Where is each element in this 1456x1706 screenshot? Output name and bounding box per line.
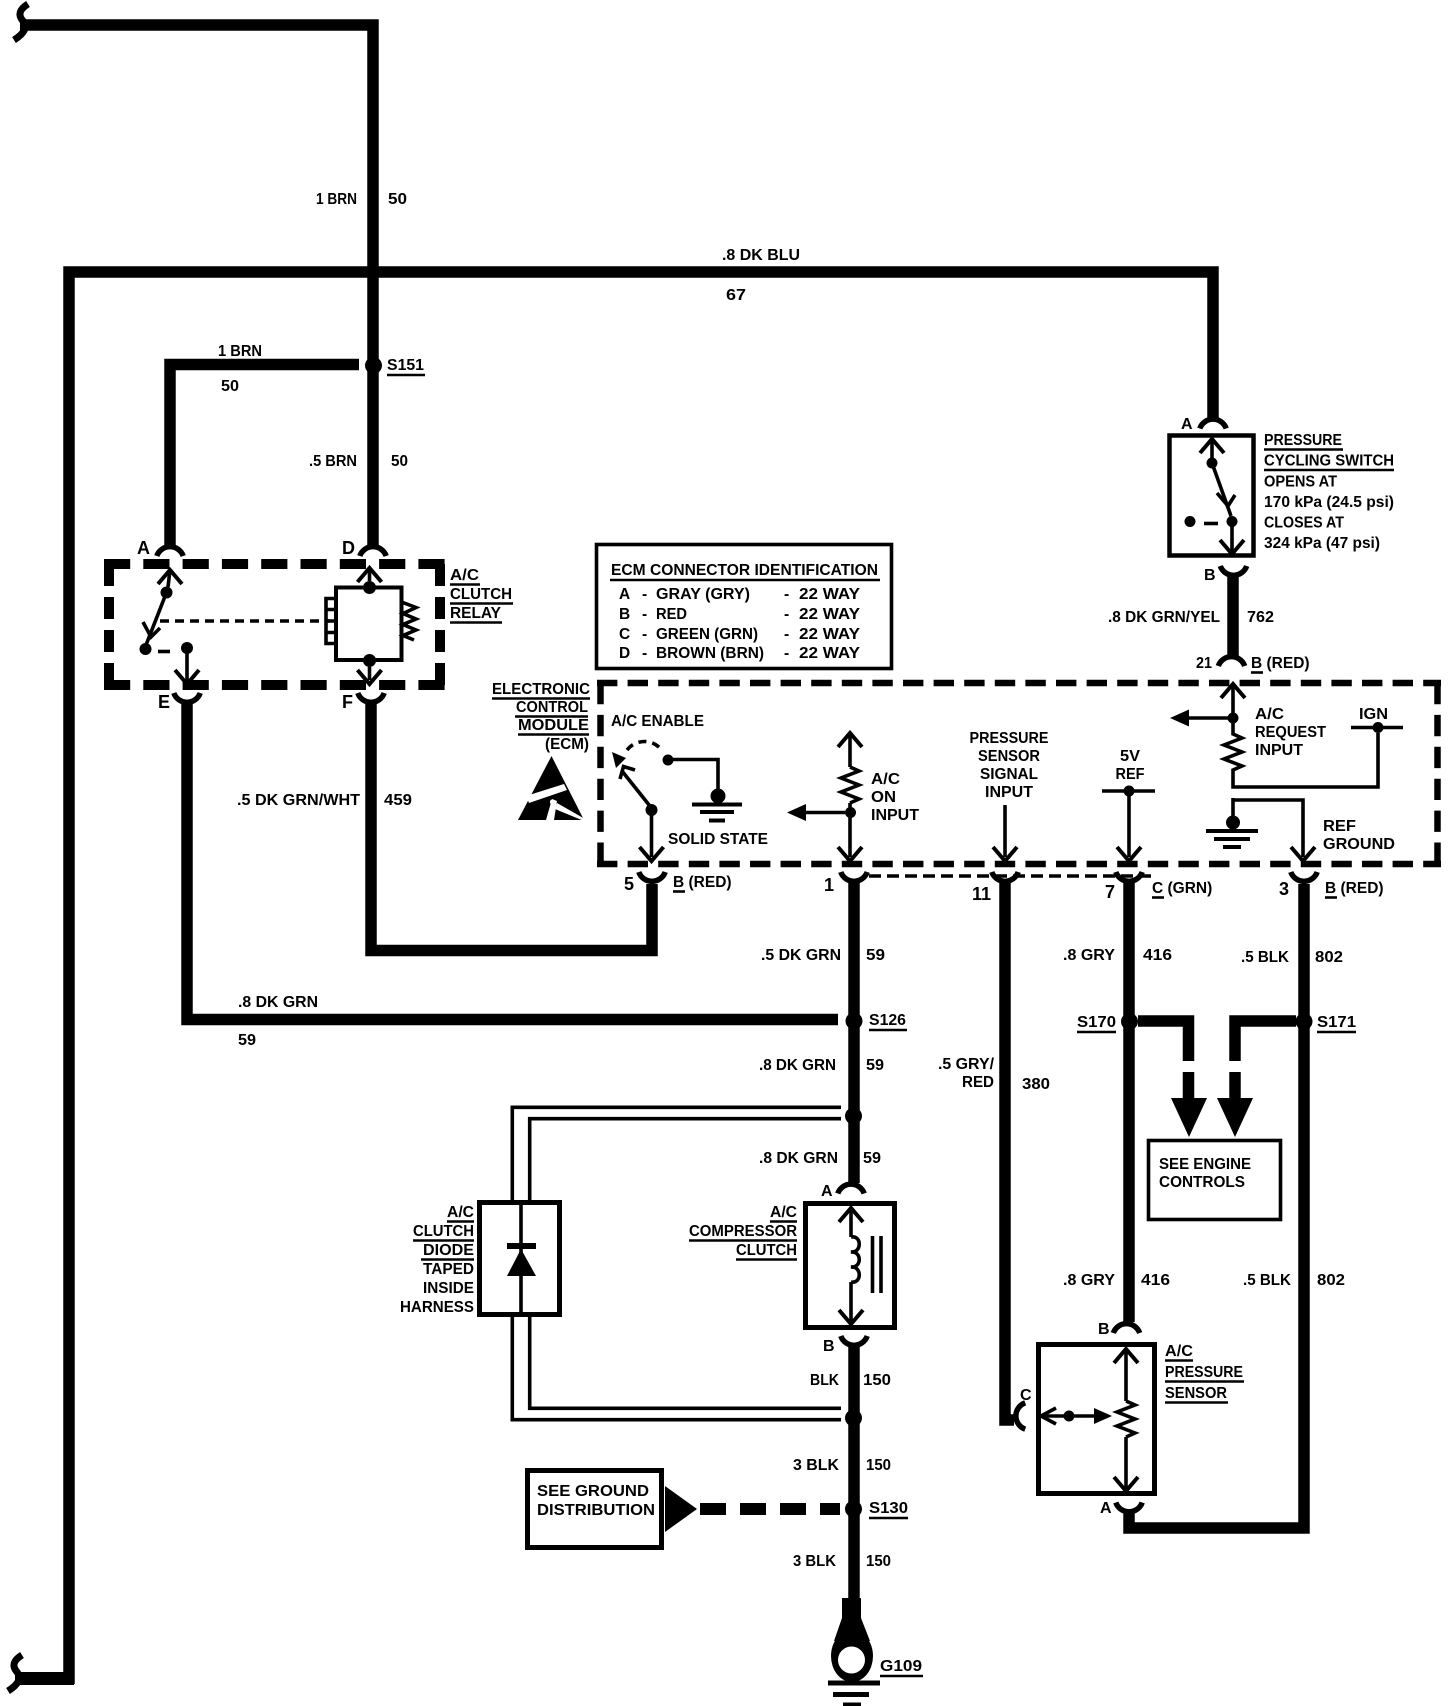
svg-text:GRAY (GRY): GRAY (GRY) [656, 586, 750, 603]
svg-text:PRESSURE: PRESSURE [1264, 432, 1342, 449]
wire .8 DK GRN/YEL 762 (switch B to ECM pin 21) [1227, 573, 1239, 656]
svg-text:SENSOR: SENSOR [1165, 1385, 1227, 1402]
svg-text:CONTROLS: CONTROLS [1159, 1174, 1245, 1191]
svg-text:ELECTRONIC: ELECTRONIC [492, 681, 590, 698]
svg-text:802: 802 [1317, 1272, 1345, 1289]
ECM internal: REF GROUND network [1206, 798, 1315, 861]
svg-text:ECM CONNECTOR IDENTIFICATION: ECM CONNECTOR IDENTIFICATION [611, 562, 878, 579]
svg-text:COMPRESSOR: COMPRESSOR [689, 1223, 797, 1240]
svg-text:A: A [137, 538, 150, 558]
ECM pin 7 id C (GRN) [1152, 880, 1212, 898]
svg-text:A: A [821, 1183, 833, 1200]
pressure cycling switch box [1170, 436, 1254, 556]
A/C clutch diode box [480, 1203, 560, 1315]
splice S151 [365, 357, 382, 374]
label S171 [1317, 1014, 1356, 1032]
svg-text:S151: S151 [387, 357, 424, 374]
svg-text:3 BLK: 3 BLK [793, 1457, 840, 1474]
ECM internal: A/C ON INPUT pull-up resistor [787, 733, 862, 861]
svg-text:11: 11 [972, 884, 991, 904]
ECM pin 3 connector [1279, 872, 1317, 899]
ground ring terminal G109 [831, 1598, 873, 1682]
svg-text:.8 GRY: .8 GRY [1063, 1272, 1116, 1289]
svg-text:.5 BLK: .5 BLK [1243, 1272, 1292, 1289]
junction with diode branch (top) [845, 1108, 862, 1125]
compressor clutch plates [873, 1236, 882, 1293]
wire BLK 150 (clutch B to G109) [848, 1343, 860, 1602]
svg-text:A/C: A/C [447, 1204, 474, 1221]
G109 ground bars [828, 1683, 880, 1705]
svg-text:C: C [1020, 1387, 1032, 1404]
ECM pin 5 id B (RED) [673, 874, 732, 892]
ECM internal: 5V REF label [1116, 748, 1145, 783]
svg-text:-: - [784, 606, 789, 623]
svg-text:S171: S171 [1317, 1014, 1356, 1031]
svg-text:F: F [342, 692, 353, 712]
svg-text:CLUTCH: CLUTCH [736, 1242, 797, 1259]
svg-text:REF: REF [1323, 818, 1356, 835]
svg-text:59: 59 [238, 1032, 256, 1049]
svg-text:59: 59 [866, 947, 885, 964]
svg-text:CLUTCH: CLUTCH [413, 1223, 474, 1240]
svg-text:21: 21 [1196, 655, 1212, 672]
svg-text:B: B [1098, 1321, 1110, 1338]
diode CR1 symbol [507, 1202, 536, 1317]
ECM pin 5 connector [624, 872, 665, 894]
svg-text:802: 802 [1315, 949, 1343, 966]
svg-text:324 kPa (47 psi): 324 kPa (47 psi) [1264, 535, 1380, 552]
svg-text:PRESSURE: PRESSURE [970, 730, 1049, 747]
svg-text:5V: 5V [1120, 748, 1141, 765]
svg-text:.5 DK GRN: .5 DK GRN [761, 947, 841, 964]
relay terminal E cup [158, 692, 200, 712]
svg-text:-: - [642, 645, 647, 662]
svg-text:SEE ENGINE: SEE ENGINE [1159, 1156, 1251, 1173]
ECM pin 3 id B (RED) [1325, 880, 1384, 898]
svg-text:.5 BLK: .5 BLK [1241, 949, 1290, 966]
dashed wire to S130 [700, 1503, 840, 1515]
ECM internal: A/C REQUEST INPUT label [1255, 706, 1326, 759]
svg-text:CYCLING SWITCH: CYCLING SWITCH [1264, 453, 1394, 470]
svg-text:150: 150 [863, 1372, 891, 1389]
pressure sensor potentiometer [1114, 1349, 1138, 1491]
ESD sensitivity symbol [518, 756, 585, 821]
ECM internal: REF GROUND label [1323, 818, 1395, 853]
svg-text:.8 DK GRN: .8 DK GRN [759, 1057, 836, 1074]
svg-text:SOLID STATE: SOLID STATE [668, 831, 768, 848]
svg-text:INPUT: INPUT [985, 784, 1034, 801]
ECM pin 11 connector [972, 872, 1018, 904]
A/C clutch relay K1 dashed box [104, 564, 445, 685]
svg-text:SENSOR: SENSOR [978, 748, 1040, 765]
compressor clutch terminal B cup [823, 1336, 867, 1355]
wire .5 GRY/RED 380 (ECM pin 11 to sensor C) [1005, 883, 1014, 1420]
svg-text:.8 DK BLU: .8 DK BLU [722, 247, 800, 264]
relay switch (terminal A to E) [140, 570, 200, 684]
ECM internal: A/C enable switch [612, 741, 674, 861]
svg-text:-: - [642, 626, 647, 643]
SEE ENGINE CONTROLS box [1149, 1141, 1281, 1220]
svg-text:.5 DK GRN/WHT: .5 DK GRN/WHT [237, 792, 361, 809]
wire 1 BRN 50 (S151 to relay terminal A) [170, 365, 359, 546]
SEE GROUND DISTRIBUTION box [528, 1471, 662, 1548]
wire .5 BLK 802 (ECM pin 3 to sensor A) [1129, 884, 1304, 1528]
svg-text:S126: S126 [869, 1012, 906, 1029]
pressure sensor terminal C cup [1016, 1387, 1032, 1429]
label A/C CLUTCH RELAY [450, 567, 513, 623]
svg-text:7: 7 [1105, 882, 1115, 902]
relay coil and resistor box [326, 568, 416, 684]
svg-text:459: 459 [384, 792, 412, 809]
svg-text:CLOSES AT: CLOSES AT [1264, 515, 1344, 532]
svg-text:59: 59 [863, 1150, 881, 1167]
svg-text:C: C [619, 626, 630, 643]
svg-text:B (RED): B (RED) [1251, 655, 1310, 672]
pressure cycling switch contacts [1185, 439, 1245, 554]
electronic control module (ECM) dashed box [597, 683, 1441, 864]
svg-text:.8 DK GRN: .8 DK GRN [759, 1150, 838, 1167]
svg-text:ON: ON [871, 789, 896, 806]
svg-text:416: 416 [1141, 1272, 1170, 1289]
compressor clutch terminal A cup [821, 1183, 864, 1200]
svg-text:3 BLK: 3 BLK [793, 1553, 837, 1570]
splice S126 [846, 1013, 863, 1030]
svg-text:DISTRIBUTION: DISTRIBUTION [537, 1502, 655, 1519]
relay terminal D cup [342, 538, 386, 558]
svg-text:CONTROL: CONTROL [516, 699, 588, 716]
relay actuation dashed link [160, 619, 330, 622]
svg-text:(ECM): (ECM) [545, 736, 589, 753]
svg-text:BROWN (BRN): BROWN (BRN) [656, 645, 764, 662]
svg-text:A: A [1181, 416, 1193, 433]
svg-text:-: - [784, 586, 789, 603]
svg-text:.5 BRN: .5 BRN [309, 453, 357, 470]
off-page arrow (ground distribution) [665, 1486, 697, 1532]
svg-text:1: 1 [824, 875, 834, 895]
pressure sensor wiper [1041, 1408, 1112, 1424]
svg-text:.8 GRY: .8 GRY [1063, 947, 1116, 964]
junction with diode branch (bottom) [845, 1410, 862, 1427]
splice S130 [845, 1501, 862, 1518]
svg-text:-: - [784, 645, 789, 662]
label S126 [869, 1012, 907, 1030]
pressure cycling switch terminal A cup [1181, 416, 1226, 433]
label A/C CLUTCH DIODE TAPED INSIDE HARNESS [400, 1204, 474, 1316]
ECM internal: A/C ON INPUT label [871, 771, 920, 824]
svg-text:22 WAY: 22 WAY [799, 645, 861, 662]
label .5 GRY/RED [938, 1056, 995, 1091]
A/C pressure sensor terminal B cup [1098, 1321, 1140, 1338]
diode branch outlined wire (taped inside harness) [512, 1107, 841, 1419]
relay terminal F cup [342, 692, 384, 712]
svg-text:416: 416 [1143, 947, 1172, 964]
label ELECTRONIC CONTROL MODULE (ECM) [492, 681, 590, 753]
svg-text:A/C: A/C [770, 1204, 797, 1221]
continuation hook (bottom left end of .8 DK BLU) [8, 1655, 22, 1691]
svg-text:D: D [342, 538, 355, 558]
svg-text:B: B [1204, 567, 1216, 584]
svg-text:IGN: IGN [1359, 706, 1388, 723]
A/C pressure sensor box [1039, 1345, 1155, 1494]
continuation hook (top left end of 1 BRN) [14, 4, 28, 40]
svg-text:.8 DK GRN/YEL: .8 DK GRN/YEL [1108, 609, 1220, 626]
svg-text:.8 DK GRN: .8 DK GRN [238, 994, 318, 1011]
svg-text:INPUT: INPUT [871, 807, 920, 824]
ECM internal: 5V REF tap [1102, 786, 1155, 862]
ECM pin 21 id B (RED) [1251, 655, 1310, 673]
S170 branch to engine controls [1138, 1021, 1207, 1137]
svg-text:PRESSURE: PRESSURE [1165, 1364, 1243, 1381]
ECM connector identification text [610, 562, 880, 662]
svg-text:S170: S170 [1077, 1014, 1116, 1031]
svg-text:B (RED): B (RED) [673, 874, 732, 891]
svg-text:OPENS AT: OPENS AT [1264, 474, 1337, 491]
svg-text:MODULE: MODULE [518, 717, 589, 734]
ECM pin 21 connector [1196, 655, 1245, 672]
svg-text:A/C: A/C [1255, 706, 1284, 723]
svg-text:GROUND: GROUND [1323, 836, 1395, 853]
wire 1 BRN 50 (fusible link feed, top) [20, 25, 373, 545]
svg-text:762: 762 [1247, 609, 1274, 626]
svg-text:RED: RED [962, 1074, 994, 1091]
svg-text:150: 150 [866, 1457, 891, 1474]
label G109 [880, 1658, 923, 1676]
svg-text:50: 50 [391, 453, 408, 470]
svg-text:-: - [784, 626, 789, 643]
svg-text:22 WAY: 22 WAY [799, 606, 861, 623]
svg-text:A/C: A/C [871, 771, 900, 788]
svg-text:INSIDE: INSIDE [423, 1280, 474, 1297]
label SEE ENGINE CONTROLS [1159, 1156, 1251, 1191]
svg-text:C (GRN): C (GRN) [1152, 880, 1212, 897]
svg-text:D: D [619, 645, 630, 662]
splice S170 [1121, 1013, 1138, 1030]
svg-text:A/C: A/C [450, 567, 479, 584]
svg-text:GREEN (GRN): GREEN (GRN) [656, 626, 758, 643]
compressor clutch coil [839, 1208, 863, 1324]
svg-text:TAPED: TAPED [423, 1261, 474, 1278]
svg-text:INPUT: INPUT [1255, 742, 1304, 759]
wire .8 GRY 416 (ECM pin 7 to sensor B) [1123, 883, 1135, 1322]
wire .5 DK GRN 59 (ECM pin 1 to compressor clutch A) [848, 883, 860, 1183]
svg-text:SIGNAL: SIGNAL [980, 766, 1038, 783]
wire .8 DK GRN 59 (relay E to S126) [187, 700, 838, 1020]
svg-text:1 BRN: 1 BRN [316, 191, 357, 208]
relay terminal A cup [137, 538, 183, 558]
svg-text:G109: G109 [880, 1658, 922, 1675]
splice S171 [1296, 1013, 1313, 1030]
ECM internal: pressure sensor signal input arrow [993, 805, 1017, 861]
ECM connector identification box [597, 545, 892, 669]
svg-text:A: A [1100, 1500, 1112, 1517]
label SEE GROUND DISTRIBUTION [537, 1483, 655, 1519]
S171 branch to engine controls [1217, 1021, 1296, 1137]
pressure sensor terminal A cup [1100, 1500, 1142, 1517]
svg-text:5: 5 [624, 874, 634, 894]
svg-text:BLK: BLK [810, 1372, 840, 1389]
svg-text:REQUEST: REQUEST [1255, 724, 1326, 741]
svg-text:B (RED): B (RED) [1325, 880, 1384, 897]
svg-text:CLUTCH: CLUTCH [450, 586, 512, 603]
ECM pin 7 connector [1105, 872, 1142, 902]
label A/C PRESSURE SENSOR [1165, 1343, 1244, 1403]
svg-text:E: E [158, 692, 170, 712]
ECM connector row dashed line (pins 1 to 7) [869, 874, 1152, 877]
label S130 [869, 1500, 908, 1518]
svg-text:A/C ENABLE: A/C ENABLE [611, 713, 704, 730]
svg-text:1 BRN: 1 BRN [218, 343, 262, 360]
svg-text:170 kPa (24.5 psi): 170 kPa (24.5 psi) [1264, 494, 1394, 511]
label A/C COMPRESSOR CLUTCH [689, 1204, 797, 1260]
svg-text:-: - [642, 606, 647, 623]
svg-text:3: 3 [1279, 879, 1289, 899]
svg-text:.5 GRY/: .5 GRY/ [938, 1056, 995, 1073]
ECM internal: PRESSURE SENSOR SIGNAL INPUT label [970, 730, 1049, 801]
svg-text:-: - [642, 586, 647, 603]
pressure cycling switch description [1264, 432, 1394, 552]
ECM internal: solid-state ground for enable switch [673, 760, 742, 821]
svg-text:380: 380 [1022, 1076, 1050, 1093]
svg-text:59: 59 [866, 1057, 884, 1074]
pressure cycling switch terminal B cup [1204, 566, 1247, 584]
svg-text:RELAY: RELAY [450, 605, 502, 622]
svg-text:150: 150 [866, 1553, 891, 1570]
svg-text:50: 50 [221, 378, 239, 395]
svg-text:REF: REF [1116, 766, 1145, 783]
ECM pin 1 connector [824, 872, 867, 895]
svg-text:50: 50 [388, 191, 407, 208]
svg-text:SEE GROUND: SEE GROUND [537, 1483, 649, 1500]
svg-text:67: 67 [726, 287, 746, 304]
wire .8 DK BLU 67 (left edge run to pressure cycling switch) [69, 272, 1213, 1684]
svg-text:A: A [619, 586, 630, 603]
label S170 [1077, 1014, 1116, 1032]
svg-text:22 WAY: 22 WAY [799, 586, 861, 603]
svg-text:DIODE: DIODE [423, 1242, 474, 1259]
A/C compressor clutch box [806, 1204, 895, 1328]
svg-text:S130: S130 [869, 1500, 908, 1517]
svg-text:A/C: A/C [1165, 1343, 1193, 1360]
ECM internal: A/C request input circuit [1170, 684, 1403, 787]
svg-text:B: B [619, 606, 630, 623]
svg-text:HARNESS: HARNESS [400, 1299, 474, 1316]
svg-text:B: B [823, 1338, 835, 1355]
wire .5 DK GRN/WHT 459 (relay F to ECM pin 5) [371, 700, 652, 951]
svg-text:RED: RED [656, 606, 687, 623]
svg-text:22 WAY: 22 WAY [799, 626, 861, 643]
